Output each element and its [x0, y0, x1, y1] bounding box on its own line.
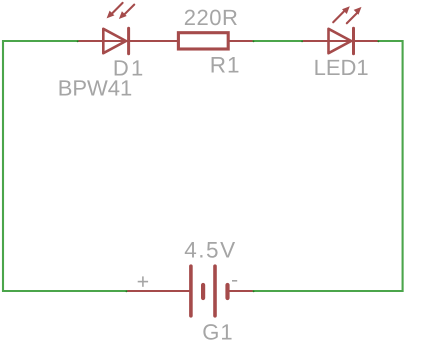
svg-text:R1: R1 — [210, 52, 241, 77]
svg-text:220R: 220R — [184, 5, 239, 30]
svg-text:BPW41: BPW41 — [58, 76, 133, 101]
svg-text:G1: G1 — [202, 320, 233, 345]
svg-text:LED1: LED1 — [314, 55, 369, 80]
svg-text:4.5V: 4.5V — [184, 238, 236, 263]
